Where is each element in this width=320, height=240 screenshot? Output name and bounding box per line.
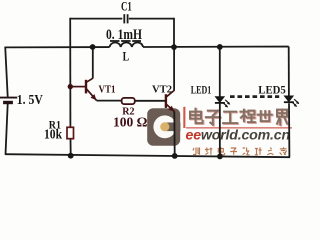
svg-text:C1: C1: [121, 0, 132, 14]
wire: LED1 vertical above: [219, 47, 221, 97]
watermark text 电子工程世界: [190, 109, 288, 126]
wire: left vertical below battery: [6, 104, 8, 155]
svg-text:LED1: LED1: [191, 85, 212, 97]
wire: top rail left segment: [5, 46, 109, 48]
wire: right vertical below LED5: [288, 103, 290, 157]
node: R1 bottom junction: [68, 153, 74, 159]
wire: base-node vertical (C1 left down through rail to R1): [69, 18, 71, 128]
svg-text:LED5: LED5: [258, 84, 286, 96]
dashed line LED1..LED5: [230, 95, 279, 98]
svg-text:L: L: [123, 49, 130, 64]
wire: C1 right vertical down to top rail: [173, 18, 175, 48]
wire: VT2 emitter vertical to bottom rail: [173, 111, 175, 156]
wire: left vertical above battery: [5, 47, 8, 97]
wire: C1 top wire left segment: [70, 18, 122, 20]
svg-text:100 Ω: 100 Ω: [113, 116, 148, 131]
watermark 创新电子设计之家: [193, 147, 287, 155]
svg-text:VT1: VT1: [99, 85, 116, 96]
label 0.1mH underline: [110, 40, 141, 42]
LED1 symbol: [215, 97, 230, 108]
node: VT1 base junction: [68, 84, 73, 89]
watermark red underline: [186, 127, 292, 128]
LED5 symbol: [284, 96, 299, 107]
watermark red bar: [183, 107, 185, 128]
wire: right vertical above LED5: [288, 47, 290, 96]
wire: R1 bottom lead to bottom rail: [70, 139, 72, 156]
inductor L winding: [110, 42, 143, 47]
capacitor C1 plates: [124, 14, 127, 23]
svg-text:1. 5V: 1. 5V: [17, 92, 43, 107]
resistor R1 body: [67, 127, 74, 138]
svg-text:eeworld.com.cn: eeworld.com.cn: [186, 128, 291, 144]
transistor VT2: [166, 90, 175, 111]
wire: C1 top wire right segment: [129, 18, 174, 20]
svg-text:10k: 10k: [44, 126, 62, 141]
svg-text:VT2: VT2: [152, 85, 172, 96]
wire: VT1 collector vertical: [92, 47, 94, 78]
node: VT1 collector junction: [90, 44, 96, 50]
node: VT2 collector / C1 junction: [171, 44, 177, 50]
wire: VT1 emitter wire to R2: [97, 100, 122, 102]
wire: top rail right segment: [143, 46, 289, 48]
wire: bottom rail: [5, 154, 290, 157]
node: VT2 emitter bottom junction: [172, 153, 178, 159]
watermark logo eeworld: [147, 108, 180, 145]
battery B 1.5V plates: [0, 98, 17, 103]
resistor R2 body: [122, 98, 135, 104]
node: LED1 top junction: [217, 44, 223, 50]
wire: R2 right lead to VT2 base: [135, 100, 166, 102]
wire: VT2 collector vertical: [173, 47, 175, 90]
wire: LED1 vertical below: [219, 103, 221, 156]
transistor VT1: [70, 78, 96, 100]
node: LED1 bottom junction: [217, 154, 223, 160]
